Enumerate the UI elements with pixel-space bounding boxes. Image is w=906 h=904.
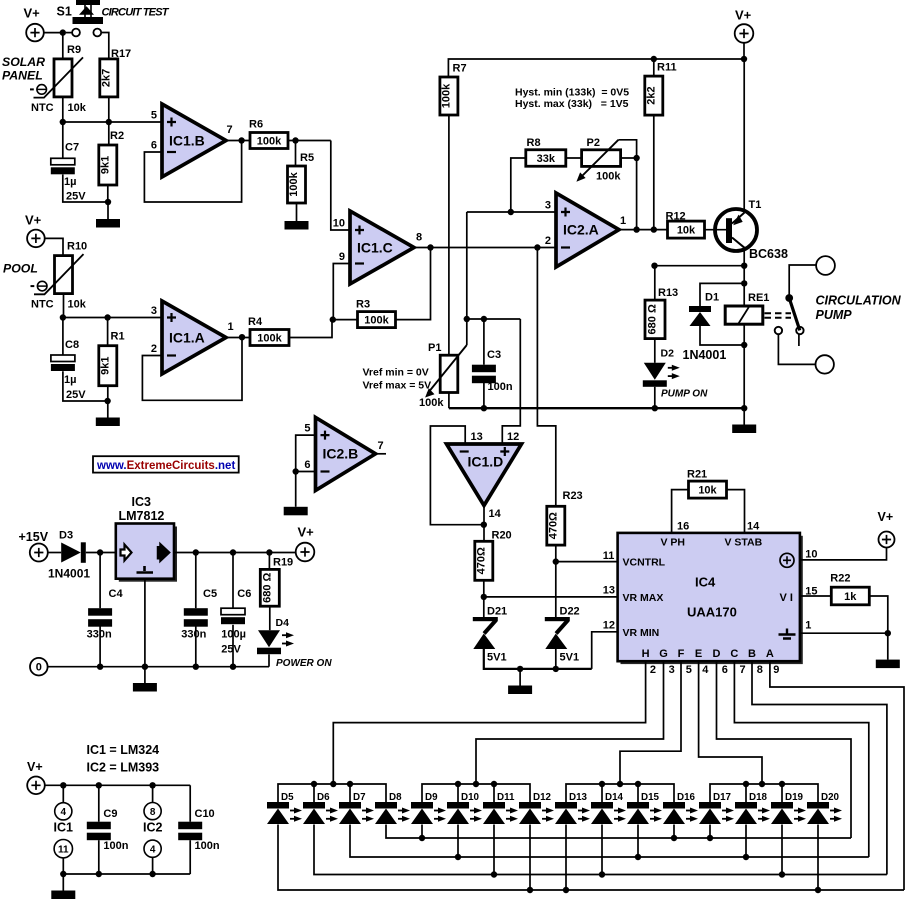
capacitor C9 100n — [87, 822, 111, 830]
wire IC3 output rail — [174, 552, 296, 554]
svg-text:13: 13 — [603, 585, 615, 597]
svg-text:470Ω: 470Ω — [547, 512, 559, 539]
wire LED anode row D (D5,D12,D13,D20) — [278, 825, 904, 891]
svg-text:VR MIN: VR MIN — [623, 627, 660, 639]
LED D16 — [663, 802, 685, 809]
terminal V+ regulator output — [296, 543, 315, 562]
node IC1.C output — [427, 244, 433, 250]
wire IC1.B feedback to pin6 — [144, 141, 241, 203]
terminal V+ bottom left — [27, 777, 45, 795]
svg-text:Vref max = 5V: Vref max = 5V — [363, 380, 432, 392]
svg-text:C4: C4 — [109, 588, 124, 600]
svg-text:10k: 10k — [698, 485, 717, 497]
svg-text:25V: 25V — [66, 389, 86, 401]
wire R8 to P2 — [566, 157, 582, 159]
terminal pump upper — [816, 256, 835, 275]
wire LED D15 anode to row — [637, 825, 639, 858]
wire IC4 pin10 to V+ — [800, 548, 887, 560]
svg-text:0: 0 — [36, 662, 42, 674]
wire to C7 — [62, 122, 64, 158]
svg-text:IC1: IC1 — [54, 821, 74, 835]
wire IC4 pin H to LED bus1 — [333, 661, 645, 784]
node D15 anode — [635, 854, 641, 860]
wire LED anode row C (D6,D11,D14,D19) — [314, 825, 887, 875]
svg-text:6: 6 — [722, 664, 728, 676]
svg-text:14: 14 — [489, 508, 502, 520]
node C3 ground — [481, 405, 487, 411]
resistor R12 10k — [668, 221, 705, 238]
svg-text:IC2.A: IC2.A — [563, 221, 599, 237]
svg-text:NTC: NTC — [31, 102, 54, 114]
svg-text:11: 11 — [58, 845, 69, 856]
node C6 gnd — [230, 664, 236, 670]
svg-text:C6: C6 — [237, 588, 251, 600]
node R10/C8 — [60, 314, 66, 320]
svg-text:100k: 100k — [257, 135, 282, 147]
wire VR MIN to IC4 — [592, 632, 618, 669]
node D2 ground — [652, 405, 658, 411]
svg-text:2: 2 — [545, 235, 551, 247]
wire LED D11 anode to row — [493, 825, 495, 875]
wire LED cathode bus 4 (D17-D20) — [710, 784, 818, 802]
wire Vref node to P1 wiper — [466, 319, 468, 345]
LED D4 power on — [258, 630, 280, 647]
ground bus wire — [449, 407, 744, 409]
svg-text:R1: R1 — [111, 331, 125, 343]
svg-text:LM7812: LM7812 — [119, 509, 165, 523]
wire D1 bottom to RE1 bottom — [700, 326, 744, 345]
svg-text:C5: C5 — [203, 588, 217, 600]
svg-text:V+: V+ — [878, 510, 894, 524]
wire IC4 pin14 to R21 — [727, 490, 745, 533]
svg-text:680 Ω: 680 Ω — [261, 573, 273, 603]
svg-text:D4: D4 — [276, 617, 290, 629]
node C9 top — [96, 782, 102, 788]
svg-text:IC4: IC4 — [695, 575, 716, 590]
wire R20 to VR MAX node — [483, 580, 485, 597]
wire V+ rail bottom left — [45, 784, 190, 786]
resistor R11 2k2 — [645, 76, 663, 115]
svg-text:D16: D16 — [677, 792, 696, 803]
node D22 ground — [553, 666, 559, 672]
wire IC1.D feedback pin13 — [430, 426, 483, 525]
wire down to R13 — [654, 266, 656, 300]
wire pin3 net — [467, 211, 556, 213]
svg-text:10k: 10k — [68, 102, 87, 114]
svg-text:IC1.A: IC1.A — [169, 329, 205, 345]
IC3 ground tab — [137, 566, 154, 573]
wire rail to C10 — [189, 785, 191, 821]
node IC2.B ground — [293, 468, 299, 474]
svg-text:R7: R7 — [453, 63, 467, 75]
node IC1.B output — [238, 137, 244, 143]
wire V+ to R10 — [45, 238, 63, 255]
svg-text:P1: P1 — [428, 342, 441, 354]
pin circle IC2 pin4 — [144, 840, 161, 857]
V+ rail top — [448, 43, 744, 77]
node R17/R2 — [106, 119, 112, 125]
svg-text:Vref min = 0V: Vref min = 0V — [363, 367, 429, 379]
svg-text:R20: R20 — [492, 530, 512, 542]
svg-text:V+: V+ — [24, 5, 41, 20]
diode D3 1N4001 — [61, 543, 81, 563]
ground IC4 — [876, 633, 900, 668]
svg-text:100k: 100k — [596, 171, 621, 183]
svg-text:PANEL: PANEL — [2, 69, 43, 83]
svg-text:1: 1 — [228, 321, 234, 333]
wire node row to IC1.B pin5 — [63, 121, 162, 123]
node P2 — [633, 155, 639, 161]
wire IC2 pin4 to ground rail — [152, 857, 154, 874]
svg-text:PUMP ON: PUMP ON — [661, 388, 708, 399]
svg-text:8: 8 — [757, 664, 763, 676]
resistor R6 100k — [250, 133, 288, 149]
svg-text:Hyst. min (133k) = 0V5: Hyst. min (133k) = 0V5 — [515, 87, 629, 99]
node IC1.A output — [239, 334, 245, 340]
resistor R22 1k — [831, 587, 869, 605]
svg-text:1N4001: 1N4001 — [683, 348, 727, 362]
wire LED cathode bus 3 (D13-D16) — [566, 784, 674, 802]
node VR MAX — [481, 594, 487, 600]
wire IC1.C pin9 down — [333, 264, 350, 320]
svg-text:4: 4 — [61, 807, 67, 818]
switch S1 pushbutton — [72, 0, 103, 36]
svg-text:470Ω: 470Ω — [475, 547, 487, 574]
svg-text:10k: 10k — [68, 299, 87, 311]
svg-text:R13: R13 — [658, 287, 678, 299]
LED D12 — [519, 802, 541, 809]
node C3 — [481, 316, 487, 322]
resistor R21 10k — [689, 481, 727, 498]
node ground IC1.B section — [105, 199, 111, 205]
wire T1 collector down — [743, 248, 745, 266]
svg-text:100k: 100k — [288, 171, 300, 196]
svg-text:V I: V I — [780, 592, 793, 604]
node D19 anode — [779, 871, 785, 877]
svg-text:9k1: 9k1 — [99, 357, 111, 375]
IC3 output arrow solid — [158, 545, 169, 561]
wire contact to lower pump terminal — [778, 334, 815, 364]
svg-text:S1: S1 — [57, 4, 72, 18]
wire LED cathode bus 1 (D5-D8) — [278, 784, 386, 802]
svg-text:9: 9 — [773, 664, 779, 676]
node gnd IC1 — [60, 871, 66, 877]
resistor R4 100k — [250, 330, 289, 346]
wire C8 to ground node — [63, 371, 108, 401]
svg-text:V PH: V PH — [661, 537, 686, 549]
wire IC4 pin C to LED row B — [734, 661, 868, 857]
svg-text:D10: D10 — [461, 792, 480, 803]
ground bottom left — [51, 874, 75, 899]
svg-text:POOL: POOL — [3, 262, 38, 276]
svg-text:V+: V+ — [27, 760, 43, 774]
svg-text:R12: R12 — [666, 211, 686, 223]
op-amp IC1.D — [447, 444, 522, 506]
pin circle IC1 pin11 — [54, 840, 72, 858]
wire IC4 pin A to LED row D — [770, 661, 904, 890]
svg-text:R22: R22 — [830, 573, 850, 585]
svg-text:POWER ON: POWER ON — [276, 658, 332, 669]
wire T1 emitter to V+ rail — [743, 59, 745, 213]
svg-text:CIRCUIT TEST: CIRCUIT TEST — [102, 6, 170, 18]
svg-text:UAA170: UAA170 — [687, 605, 737, 620]
terminal V+ top right — [735, 24, 754, 43]
svg-text:R9: R9 — [67, 44, 81, 56]
wire P1 to ground bus — [448, 393, 450, 409]
wire to C3 — [483, 319, 485, 365]
svg-text:NTC: NTC — [31, 299, 54, 311]
svg-text:A: A — [766, 648, 774, 660]
wire IC4 pin G to LED bus2 — [476, 661, 664, 784]
node D1 top — [741, 280, 747, 286]
resistor R7 100k — [440, 77, 458, 115]
wire LED cathode bus 2 (D9-D12) — [422, 784, 530, 802]
svg-text:D11: D11 — [497, 792, 515, 803]
svg-text:7: 7 — [740, 664, 746, 676]
wire R10 to node — [63, 294, 65, 318]
switch pivot — [785, 294, 793, 302]
wire node to C4 — [99, 553, 101, 609]
wire zener ground bus — [484, 649, 592, 669]
svg-text:www.ExtremeCircuits.net: www.ExtremeCircuits.net — [96, 460, 235, 472]
wire RE1 to ground bus — [743, 324, 745, 409]
node D12 anode — [527, 887, 533, 893]
svg-text:100k: 100k — [364, 315, 389, 327]
wire R11 to output node — [653, 115, 655, 230]
resistor R17 2k7 — [100, 59, 118, 97]
svg-text:D22: D22 — [560, 606, 580, 618]
svg-text:2: 2 — [151, 343, 157, 355]
wire to C8 — [62, 318, 64, 356]
svg-text:R2: R2 — [110, 130, 124, 142]
node zener ground — [517, 666, 523, 672]
svg-text:D21: D21 — [487, 606, 507, 618]
node V+ rail — [741, 56, 747, 62]
LED D8 — [375, 802, 397, 809]
wire node to R2 — [108, 122, 110, 145]
svg-text:R3: R3 — [356, 299, 370, 311]
svg-text:9k1: 9k1 — [99, 156, 111, 174]
capacitor C10 100n — [178, 822, 202, 830]
wire node to R9 — [62, 33, 64, 59]
resistor R10 NTC 10k pool sensor — [55, 256, 73, 294]
transistor T1 BC638 — [705, 209, 758, 251]
wire R9 to node — [62, 97, 64, 122]
wire IC2.B inputs tied — [296, 435, 316, 471]
LED D13 — [555, 802, 577, 809]
svg-text:PUMP: PUMP — [816, 308, 853, 322]
node C5 — [193, 549, 199, 555]
svg-text:5: 5 — [151, 110, 157, 122]
svg-text:4: 4 — [150, 845, 156, 856]
LED D11 — [483, 802, 505, 809]
potentiometer P1 100k — [440, 355, 458, 392]
svg-text:D5: D5 — [281, 792, 294, 803]
svg-text:D19: D19 — [785, 792, 804, 803]
svg-text:R21: R21 — [687, 469, 707, 481]
wire IC4 pin D to LED row A — [717, 661, 852, 838]
wire LED D9 anode to row — [421, 825, 423, 839]
wire to IC1 pin4 — [62, 785, 64, 803]
svg-text:R17: R17 — [111, 48, 131, 60]
svg-text:R10: R10 — [67, 241, 87, 253]
wire R6 to IC1.C branch — [288, 140, 331, 142]
node R6/R5 — [292, 137, 298, 143]
svg-text:100k: 100k — [440, 83, 452, 108]
svg-text:C9: C9 — [103, 808, 117, 820]
wire R13 to D2 — [654, 339, 656, 363]
wire IC1.D output down — [483, 506, 485, 542]
svg-text:5: 5 — [304, 423, 310, 435]
wire D22 to ground bus — [555, 649, 557, 669]
ground under R5 — [285, 221, 309, 230]
wire node to S1 contact — [66, 32, 72, 34]
IC4 internal plus symbol — [780, 553, 794, 567]
op-amp IC1.B — [162, 104, 226, 177]
LED D14 — [591, 802, 613, 809]
svg-text:680 Ω: 680 Ω — [647, 304, 659, 334]
node D14 anode — [599, 871, 605, 877]
wire R5 to ground — [296, 203, 298, 221]
wire IC4 pin E to LED bus4 — [699, 661, 762, 784]
svg-text:1µ: 1µ — [64, 374, 76, 386]
relay switch contacts — [775, 327, 782, 334]
svg-text:RE1: RE1 — [748, 292, 769, 304]
capacitor C6 100u 25V — [221, 608, 245, 615]
zener D22 5V1 — [545, 617, 570, 621]
wire IC2.A output to R12 — [619, 229, 668, 231]
svg-text:B: B — [748, 648, 756, 660]
svg-text:E: E — [695, 648, 702, 660]
node C5 gnd — [193, 664, 199, 670]
wire C5 to ground rail — [195, 627, 197, 667]
wire R2 to ground node — [107, 185, 109, 202]
svg-text:9: 9 — [339, 251, 345, 263]
wire LED anode row B (D7,D10,D15,D18) — [350, 825, 869, 858]
svg-text:R11: R11 — [657, 62, 677, 74]
LED D17 — [699, 802, 721, 809]
pin circle IC1 pin4 — [55, 803, 72, 820]
terminal V+ IC4 — [879, 532, 895, 548]
svg-text:7: 7 — [227, 124, 233, 136]
zener D21 5V1 — [473, 617, 498, 621]
terminal pump lower — [816, 355, 834, 373]
node ground IC1.A section — [104, 398, 110, 404]
ground zeners — [508, 669, 532, 694]
wire +15V to D3 — [48, 552, 61, 554]
wire LED D10 anode to row — [457, 825, 459, 858]
LED D20 — [807, 802, 829, 809]
svg-text:4: 4 — [702, 664, 709, 676]
op-amp IC1.C — [350, 211, 414, 284]
wire collector to RE1 — [743, 266, 745, 306]
svg-text:R8: R8 — [527, 137, 541, 149]
node relay ground — [741, 405, 747, 411]
wire to C9 — [98, 785, 100, 821]
wire node to R3 — [333, 319, 358, 321]
node to R23 — [534, 244, 540, 250]
wire D4 to ground rail — [268, 654, 270, 666]
wire collector to R13 — [655, 265, 744, 267]
bus drop junction dots — [330, 781, 336, 787]
svg-text:D6: D6 — [317, 792, 330, 803]
svg-text:100k: 100k — [257, 332, 282, 344]
svg-text:C7: C7 — [65, 142, 79, 154]
svg-text:R4: R4 — [248, 316, 263, 328]
svg-text:BC638: BC638 — [749, 247, 788, 261]
svg-text:5V1: 5V1 — [487, 652, 507, 664]
wire D3 to IC3 — [86, 552, 116, 554]
node RE1/D1 bottom — [741, 342, 747, 348]
svg-text:14: 14 — [747, 521, 760, 533]
resistor R2 9k1 — [99, 145, 117, 185]
svg-text:R5: R5 — [300, 152, 314, 164]
wire pivot to upper pump terminal — [789, 265, 816, 298]
ground main right — [732, 409, 756, 434]
svg-text:P2: P2 — [587, 137, 600, 149]
svg-text:+15V: +15V — [19, 530, 49, 544]
resistor R8 33k — [526, 150, 566, 167]
wire IC4 pin B to LED row C — [752, 661, 887, 874]
potentiometer P2 100k — [582, 150, 621, 167]
node IC3 gnd — [142, 664, 148, 670]
diode D1 1N4001 flyback — [689, 306, 711, 312]
node VCNTRL — [553, 558, 559, 564]
svg-text:F: F — [678, 648, 685, 660]
node C9 bottom — [96, 871, 102, 877]
svg-text:SOLAR: SOLAR — [2, 55, 45, 69]
svg-text:IC1.B: IC1.B — [169, 132, 205, 148]
LED D5 — [267, 802, 289, 809]
wire C3 to ground bus — [483, 383, 485, 408]
svg-text:IC2 = LM393: IC2 = LM393 — [87, 761, 160, 775]
wire LED D20 anode to row — [817, 825, 819, 891]
node D13 anode — [563, 887, 569, 893]
LED D9 — [411, 802, 433, 809]
svg-text:33k: 33k — [537, 153, 556, 165]
capacitor C8 1u 25V — [51, 355, 75, 362]
svg-text:25V: 25V — [66, 191, 86, 203]
svg-text:T1: T1 — [749, 199, 762, 211]
wire IC1 pin11 to ground rail — [62, 858, 64, 874]
svg-text:R19: R19 — [273, 557, 293, 569]
resistor R20 470 — [475, 541, 493, 580]
svg-text:10k: 10k — [677, 225, 696, 237]
svg-text:2: 2 — [650, 664, 656, 676]
svg-text:IC1.C: IC1.C — [357, 239, 393, 255]
LED D7 — [339, 802, 361, 809]
wire LED D16 anode to row — [673, 825, 675, 839]
svg-text:V+: V+ — [25, 213, 42, 228]
wire C10 to ground rail — [189, 840, 191, 874]
wire IC4 pin F to LED bus3 — [620, 661, 681, 784]
wire node row to IC1.A pin3 — [63, 317, 162, 319]
wire LED D13 anode to row — [565, 825, 567, 891]
svg-text:3: 3 — [151, 305, 157, 317]
capacitor C4 330n — [88, 608, 112, 616]
node C6 — [230, 549, 236, 555]
svg-text:1: 1 — [620, 215, 626, 227]
node gnd IC2 — [149, 871, 155, 877]
wire node to R5 — [295, 141, 297, 167]
svg-text:1: 1 — [805, 620, 811, 632]
wire LED anode row A (D8,D9,D16,D17) — [386, 825, 851, 839]
LED D15 — [627, 802, 649, 809]
wire R4 up to R3 node — [289, 320, 332, 338]
LED D10 — [447, 802, 469, 809]
svg-text:100n: 100n — [488, 381, 513, 393]
svg-text:G: G — [659, 648, 668, 660]
